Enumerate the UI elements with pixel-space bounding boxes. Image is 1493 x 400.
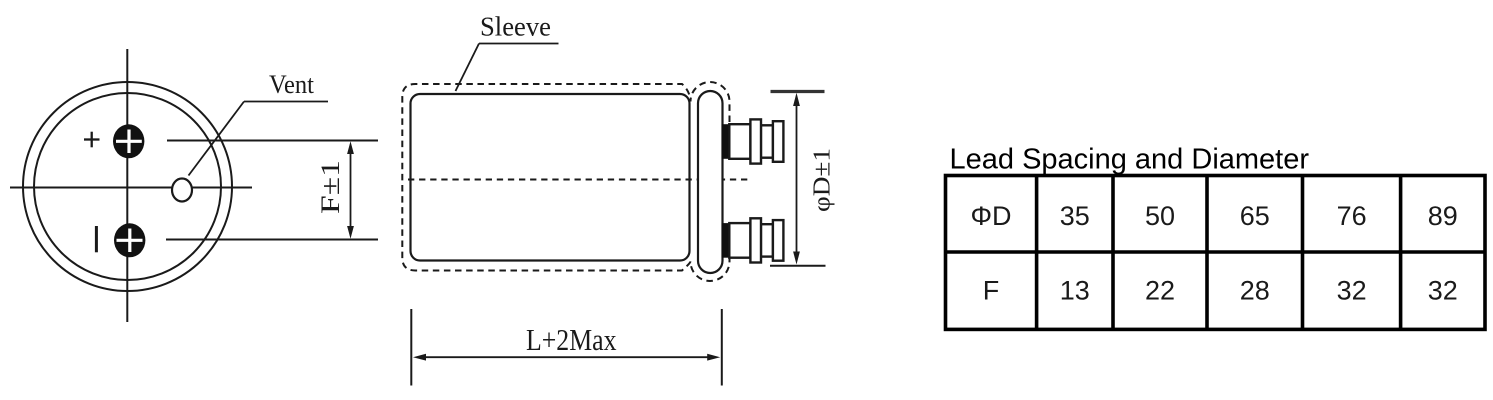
svg-text:L+2Max: L+2Max — [526, 322, 617, 357]
plus polarity mark — [84, 132, 100, 148]
dimension phiD extension top — [771, 90, 825, 93]
svg-text:Sleeve: Sleeve — [480, 12, 551, 42]
vertical centerline — [126, 49, 128, 322]
dimension L+2Max extension left — [410, 309, 412, 386]
svg-text:50: 50 — [1145, 201, 1175, 231]
sleeve leader line — [456, 44, 559, 92]
screw terminal top (side view) — [722, 119, 784, 163]
table row 1 — [970, 201, 1457, 231]
table grid — [946, 176, 1486, 330]
table row 2 — [983, 276, 1458, 306]
svg-text:ΦD: ΦD — [970, 201, 1011, 231]
svg-text:35: 35 — [1060, 201, 1090, 231]
svg-text:89: 89 — [1428, 201, 1458, 231]
svg-text:13: 13 — [1060, 276, 1090, 306]
positive terminal (top view) — [113, 124, 144, 158]
svg-text:32: 32 — [1428, 276, 1458, 306]
svg-text:Lead Spacing and Diameter: Lead Spacing and Diameter — [950, 144, 1310, 176]
svg-text:28: 28 — [1240, 276, 1270, 306]
vent leader line — [189, 102, 329, 176]
svg-text:76: 76 — [1337, 201, 1367, 231]
dimension phiD extension bottom — [770, 265, 826, 267]
svg-text:32: 32 — [1337, 276, 1367, 306]
capacitor top-view outer circle — [23, 82, 232, 291]
body center dashed line — [408, 179, 749, 181]
sleeve dashed outline — [402, 82, 729, 281]
svg-text:φD±1: φD±1 — [810, 148, 836, 212]
horizontal centerline — [10, 187, 252, 189]
vent hole — [172, 179, 192, 202]
screw terminal bottom (side view) — [722, 218, 784, 262]
dimension phiD arrow line — [793, 93, 800, 265]
terminal extension line bottom — [166, 239, 378, 241]
minus polarity mark — [95, 226, 98, 252]
dimension L+2Max arrow line — [413, 354, 720, 361]
dimension L+2Max extension right — [721, 309, 723, 386]
svg-text:22: 22 — [1145, 276, 1175, 306]
capacitor top-view inner circle — [34, 93, 221, 280]
capacitor body (side view) — [411, 94, 690, 261]
negative terminal (top view) — [114, 223, 145, 257]
terminal extension line top — [167, 140, 378, 142]
svg-text:F±1: F±1 — [316, 160, 345, 214]
svg-text:65: 65 — [1240, 201, 1270, 231]
svg-text:Vent: Vent — [269, 70, 315, 99]
dimension F±1 — [347, 141, 354, 238]
end disc capsule — [698, 91, 723, 273]
svg-text:F: F — [983, 276, 1000, 306]
